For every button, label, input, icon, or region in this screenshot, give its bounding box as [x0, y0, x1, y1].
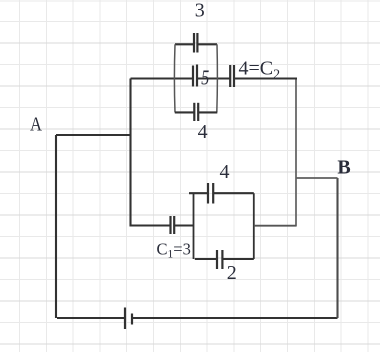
capacitor C4 value 4 (upper box bottom) [194, 103, 198, 121]
wire C2 to right trunk [235, 77, 298, 79]
svg-text:A: A [30, 114, 42, 136]
capacitor C5 value 5 [193, 65, 197, 87]
svg-text:3: 3 [195, 0, 205, 22]
lower box bottom edge with gap [195, 258, 254, 260]
capacitor bottom (unlabeled) [125, 308, 132, 330]
upper box right edge [216, 44, 219, 112]
svg-text:5: 5 [201, 66, 209, 90]
wire C1 row left segment [131, 224, 171, 226]
capacitor C3 value 3 [194, 33, 197, 53]
capacitor C4b value 4 (lower box top) [208, 183, 213, 204]
upper box bottom edge with gap [175, 111, 218, 113]
capacitor C1 value 3 [171, 216, 175, 234]
upper box left edge [173, 44, 176, 112]
wire middle row left segment [131, 77, 193, 79]
wire lower box to right trunk [254, 225, 296, 227]
lower box top edge with gap [189, 192, 254, 194]
wire right trunk vertical [295, 79, 297, 227]
svg-text:2: 2 [227, 262, 237, 284]
svg-text:4: 4 [198, 121, 208, 143]
wire A horizontal [56, 134, 131, 136]
capacitor C2b value 2 (lower box bottom) [217, 250, 222, 269]
upper box top edge with gap [175, 43, 217, 45]
wire A vertical left side [55, 135, 57, 318]
wire left trunk vertical [129, 79, 131, 227]
svg-text:C1=3: C1=3 [157, 240, 191, 261]
wire bottom right segment [133, 317, 338, 319]
svg-text:B: B [337, 157, 350, 179]
capacitor C2 value 4 [230, 65, 234, 87]
wire right vertical to B [336, 178, 338, 318]
wire B horizontal [296, 177, 338, 179]
wire between C5 and C2 [198, 77, 230, 79]
lower box right edge [253, 193, 255, 259]
wire C1 to lower box [175, 224, 194, 226]
svg-text:4=C2: 4=C2 [239, 58, 281, 83]
wire bottom left segment [57, 317, 124, 319]
svg-text:4: 4 [220, 161, 230, 183]
lower box left edge [193, 193, 195, 259]
